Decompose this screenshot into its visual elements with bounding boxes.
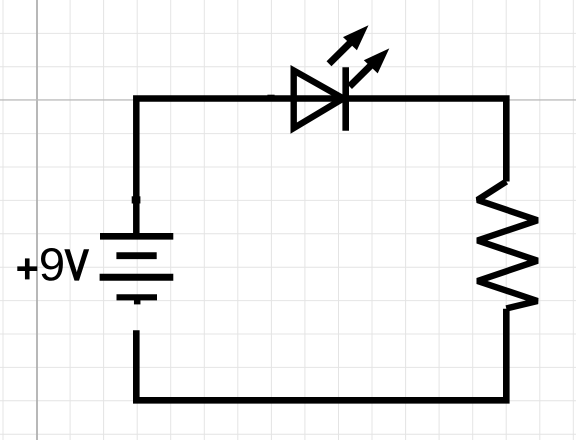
emission arrow 2 shaft [350,64,373,86]
wire: battery + terminal up and across to LED anode [136,99,343,237]
wire: battery - terminal down, across bottom, up to resistor bottom [136,309,506,401]
anode triangle [294,71,344,129]
wire: LED cathode across and down to resistor top [348,99,506,182]
label +9V [17,248,87,281]
emission arrow 2 head [364,48,390,73]
cathode bar [342,67,349,131]
resistor R1 [478,182,538,309]
battery B1 (9V) [100,236,174,304]
emission arrow 1 head [343,25,369,50]
wire joint bump (top wire segment join) [267,95,274,102]
emission arrow 1 shaft [329,42,352,64]
LED D1 [294,25,390,131]
wire joint bump (left wire segment join) [132,196,141,203]
